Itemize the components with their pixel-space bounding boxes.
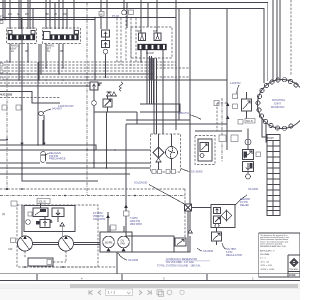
arrow junction x22 y145	[20, 143, 23, 146]
wire drop to reducing valves	[100, 0, 102, 29]
node dot x7 bus	[6, 188, 8, 190]
dashed pilot bundle	[117, 16, 136, 68]
wire drop	[58, 0, 60, 29]
arrow up feed P3	[107, 248, 111, 252]
junction dots pilot bus	[2, 17, 149, 21]
cable bundle dark	[149, 58, 154, 80]
wire dash-dot x7	[6, 60, 8, 189]
zone tick 3	[206, 274, 208, 281]
svg-text:.XXX ± .003: .XXX ± .003	[260, 265, 272, 267]
svg-text:JOINT: JOINT	[274, 101, 282, 105]
svg-text:ANGULAR ± 1°: ANGULAR ± 1°	[260, 250, 275, 253]
cooler port box 15	[152, 170, 156, 174]
SOL 20 box	[37, 199, 50, 204]
leader SS-0005	[118, 253, 127, 260]
viewer refresh icon	[167, 290, 172, 295]
check valve CV3	[156, 158, 161, 162]
filter assembly FA1 box	[211, 205, 235, 228]
pump group enclosure	[17, 205, 98, 267]
wire left bus y174	[0, 173, 130, 175]
valve assembly VA4 below joint	[243, 150, 254, 160]
port box left edge e	[0, 77, 3, 80]
wire mid solid bus 2	[0, 79, 227, 81]
wire drop	[62, 0, 64, 29]
drawing border outer line	[0, 280, 300, 282]
wire y92 corner	[0, 92, 60, 104]
viewer scrollbar thumb	[70, 284, 298, 288]
zone tick 1	[36, 274, 38, 281]
leader 2850 PSI	[190, 115, 201, 120]
svg-text:2A: 2A	[11, 50, 14, 53]
RJ1 rim ports	[256, 78, 298, 131]
solenoid SOL A of V3	[139, 33, 146, 41]
wire vertical x43	[42, 120, 44, 145]
wire V2 tank drop	[45, 44, 47, 69]
svg-text:REGULATOR: REGULATOR	[226, 253, 242, 257]
pager page input	[106, 289, 133, 295]
wire drop	[49, 0, 51, 29]
wire P3 P4 up	[110, 226, 124, 232]
wire dashed L x217	[217, 103, 227, 131]
FA1 relief valve	[214, 208, 221, 214]
svg-text:FAN: FAN	[121, 242, 126, 245]
wire V1 work port A	[18, 44, 20, 81]
wire pilot return bus	[0, 19, 95, 21]
control valve CV-P2	[52, 208, 64, 217]
svg-text:.XXXX ± .0005: .XXXX ± .0005	[260, 269, 275, 271]
wire bundle center	[150, 56, 154, 104]
gauge G2	[103, 49, 107, 53]
component box 15b	[16, 105, 21, 110]
svg-text:1803 RPM: 1803 RPM	[130, 222, 142, 226]
component box 14	[11, 201, 17, 206]
wire drop long right lower	[189, 211, 191, 230]
spool dark CV-P1	[40, 209, 46, 212]
svg-text:RELIEF: RELIEF	[240, 203, 249, 207]
wire drop left group	[2, 0, 4, 18]
label SN-7857 regulator	[226, 247, 242, 257]
valve V1 label	[10, 45, 19, 51]
svg-text:SS-0000: SS-0000	[248, 187, 259, 191]
valve V2 TRAVEL LEFT enclosure	[43, 28, 81, 44]
wire left bus y145	[0, 145, 96, 150]
accumulator label	[49, 151, 66, 161]
leader SS-J0005	[181, 169, 190, 172]
FA1 valve 2	[214, 216, 221, 224]
wire left bus y163	[0, 162, 40, 164]
wire drop long	[175, 0, 177, 130]
wire drop	[54, 3, 56, 30]
component box L2	[99, 12, 104, 17]
component box 18	[11, 238, 16, 243]
aux valve gauge	[200, 154, 204, 158]
svg-text:14U2702: 14U2702	[230, 81, 241, 85]
label 16 GPM pump	[93, 211, 105, 221]
wire V2 work port B	[62, 44, 64, 69]
motor group box	[100, 232, 132, 252]
check valve CV1	[107, 92, 112, 96]
component box 90	[129, 10, 134, 15]
wire mid dashed bus 4	[0, 70, 150, 72]
svg-text:SOLENOID: SOLENOID	[134, 181, 148, 185]
fan motor FM1	[166, 147, 178, 159]
valve V2 spool windows	[53, 35, 77, 39]
wire V3 drop	[162, 50, 164, 134]
component box 16	[47, 260, 52, 265]
svg-text:SOL B: SOL B	[246, 121, 253, 123]
pager dropdown arrow	[127, 292, 131, 294]
viewer toolbar	[0, 288, 300, 300]
filter F1	[153, 147, 164, 158]
svg-text:REFERENCE ASM FILE: UGII: REFERENCE ASM FILE: UGII	[260, 245, 286, 248]
title block logo cell	[288, 255, 300, 277]
valve V2 pilot caps	[44, 31, 79, 40]
leader solenoid	[149, 185, 188, 207]
wire V3 return	[156, 58, 158, 134]
svg-text:1803 RPM: 1803 RPM	[93, 217, 105, 221]
gauge G1 circle	[122, 10, 127, 15]
drawing border inner line	[0, 273, 300, 275]
arrow up x126	[124, 204, 128, 208]
wire mid solid bus 3	[0, 85, 95, 87]
wire cooler feed 2	[126, 119, 190, 121]
node dot gauge riser	[123, 8, 125, 10]
title block note text	[260, 234, 289, 248]
component box 12	[214, 101, 219, 106]
node dot x7 end	[6, 139, 8, 141]
wire V1 tank drop	[9, 44, 11, 63]
valve V1 spool windows	[10, 35, 32, 39]
valve VA4 spool dark	[244, 152, 248, 158]
valve V2 label	[46, 45, 55, 51]
svg-text:2B: 2B	[25, 51, 28, 53]
component box 22	[256, 152, 261, 157]
svg-text:TOTAL SYSTEM VOLUME - 188 GAL: TOTAL SYSTEM VOLUME - 188 GAL	[157, 263, 201, 267]
valve VA4 lower body	[243, 162, 254, 172]
wire drain dashed bus	[33, 266, 117, 268]
solenoid valve SV1	[103, 99, 112, 107]
coil CL1	[120, 82, 123, 91]
wire drop	[126, 3, 128, 29]
pump manifold inner box	[24, 206, 75, 232]
suction valve SV3	[175, 238, 186, 246]
component box 14b	[2, 105, 7, 110]
component box 28	[110, 225, 116, 230]
viewer toolbar top divider	[0, 287, 300, 289]
wire dashed power-unit bus 1	[0, 188, 185, 190]
spool dark CV-P2	[36, 221, 43, 225]
wire motor drop	[116, 252, 118, 274]
wire drop to valve V2	[45, 0, 47, 29]
svg-text:SS-0005: SS-0005	[203, 249, 214, 253]
wire mid dashed bus 3	[0, 67, 190, 69]
wire drop	[73, 0, 75, 34]
junction dots solid buses	[9, 73, 96, 87]
wire bottom manifold	[126, 232, 174, 252]
wire z link	[192, 207, 212, 209]
title block logo diamond	[290, 259, 298, 267]
pump drain box	[28, 258, 53, 266]
svg-text:TRAVEL: TRAVEL	[10, 45, 19, 48]
control valve CV-P1	[33, 208, 48, 217]
SV2 body	[242, 99, 252, 111]
aux valve element	[200, 143, 209, 152]
valve V3 spool windows	[140, 45, 165, 49]
wire pilot dash-dot line	[86, 3, 88, 196]
junction dots grid	[86, 149, 107, 169]
reservoir label underline	[165, 260, 210, 262]
wire top pressure bus P	[0, 3, 268, 82]
aux valve body	[198, 139, 212, 161]
wire left bus y163 contd	[46, 162, 151, 164]
svg-text:MANIFOLD: MANIFOLD	[271, 105, 285, 109]
valve V2 port labels	[45, 13, 68, 16]
wire inter-bank pair	[39, 44, 41, 80]
svg-text:(2): (2)	[2, 212, 5, 216]
label 12096 relief	[240, 197, 250, 207]
wire mid dashed bus 5	[0, 76, 190, 78]
svg-text:TRAVEL: TRAVEL	[46, 45, 55, 48]
RJ1 label	[271, 98, 285, 109]
cooler port box 17	[166, 170, 170, 174]
leader 14U4007	[43, 109, 51, 113]
pump P3	[103, 236, 115, 248]
wire left bus y150	[0, 149, 151, 151]
wire drop to valve V3	[140, 0, 142, 33]
valve V3 spool block	[138, 44, 167, 50]
svg-text:PT-06: PT-06	[112, 14, 119, 18]
wire drop	[29, 0, 31, 29]
wire right risers to rotary joint	[272, 0, 274, 85]
wire drop	[20, 0, 22, 29]
spring RV-P1	[50, 220, 52, 223]
component box z	[185, 204, 192, 211]
wire drop	[147, 3, 149, 28]
wire drop	[178, 9, 180, 121]
cooler port box 16	[158, 170, 162, 174]
component box 44	[124, 211, 130, 216]
svg-text:3A: 3A	[47, 50, 50, 53]
junction dots left buses	[21, 144, 116, 175]
pager next button	[139, 290, 142, 294]
wire dashed power-unit right edge	[184, 189, 186, 242]
wire z down	[174, 211, 188, 252]
regulator valve RG1	[212, 232, 222, 241]
wire pump drains dashed	[25, 251, 66, 262]
wire dashed sheet edge	[290, 0, 292, 76]
wire PRV verticals down	[94, 112, 107, 168]
svg-text:PRECHARGE: PRECHARGE	[49, 157, 66, 161]
svg-text:1 / 1: 1 / 1	[108, 290, 117, 295]
title block CAB text	[289, 268, 298, 277]
svg-text:CW: CW	[8, 247, 13, 251]
SV2 leader	[237, 85, 239, 98]
wire drop	[32, 9, 34, 30]
wire top tank bus T	[0, 9, 264, 84]
cooler port box 18	[172, 170, 176, 174]
valve VA4 spool dark 2	[250, 163, 253, 169]
wire RC1 links	[94, 90, 137, 112]
title block tolerance rows	[260, 250, 275, 272]
valve V1 spool block	[8, 35, 35, 41]
accumulator leader	[45, 154, 48, 157]
viewer fullscreen icon	[157, 290, 164, 297]
wire drop long right	[189, 9, 191, 205]
wire mid solid bus 1	[0, 73, 154, 75]
valve V3 solenoid tags	[137, 31, 158, 33]
node dots dashed bus	[21, 188, 136, 196]
pump P4 text	[121, 241, 126, 246]
port box left edge b	[0, 21, 3, 24]
wire SV2	[246, 92, 248, 119]
pager last-page button	[148, 290, 152, 294]
valve V1 pilot caps	[8, 31, 35, 35]
component box 10	[233, 104, 238, 109]
svg-text:16GPM: 16GPM	[105, 242, 113, 244]
wire mid dashed bus 2	[0, 64, 176, 66]
wire dashed power-unit bus 2	[0, 195, 185, 197]
svg-text:TRW ASM: TRW ASM	[289, 268, 298, 271]
wire VA4 links	[247, 129, 249, 175]
component box SOL B2	[238, 120, 243, 125]
wire drop	[4, 0, 6, 20]
wire drop	[66, 9, 68, 30]
pump P4	[118, 236, 130, 248]
wire drop	[18, 0, 20, 29]
relief cluster RC1 spring	[98, 83, 100, 86]
wire FA1 down	[216, 228, 218, 245]
wire right connector	[126, 123, 227, 125]
check valve CV2	[112, 92, 117, 96]
wire bottom long	[117, 236, 190, 252]
accumulator AC1	[41, 152, 46, 163]
wire V2 work port A	[58, 44, 60, 75]
wire x126 drop	[125, 124, 127, 232]
shaft P2-motor	[74, 243, 101, 245]
gauge G4	[246, 174, 251, 179]
node drain dots	[24, 266, 64, 268]
wire V3 drop	[146, 50, 148, 104]
wire shuttle to drop	[43, 113, 44, 115]
wire vertical x38	[37, 62, 39, 145]
rotary joint port table	[267, 135, 280, 216]
check CV-P3	[60, 222, 64, 226]
valve V1 TRAVEL RIGHT enclosure	[7, 28, 37, 44]
arrow junction x44 y145	[42, 143, 45, 146]
arrow motor feed left	[106, 214, 110, 218]
valve V3 fan loop enclosure	[131, 27, 172, 58]
wire RV stack	[105, 37, 107, 41]
node V1 ports text	[11, 50, 28, 53]
svg-text:DECIMAL: DECIMAL	[260, 253, 271, 256]
wire mid dashed bus 6	[0, 82, 101, 84]
SV2 SOL B box	[245, 119, 255, 124]
svg-text:4UG1-09S: 4UG1-09S	[0, 93, 13, 97]
valve V2 spool block	[50, 35, 79, 41]
pump P1	[18, 236, 33, 251]
wire y140 stub	[0, 139, 7, 141]
svg-text:.XX ± .06: .XX ± .06	[260, 261, 270, 263]
FA1 filter diamond	[222, 210, 232, 221]
check valve CV4	[188, 229, 192, 233]
cooler assembly enclosure	[151, 134, 181, 172]
viewer scrollbar track	[0, 284, 300, 289]
component box L1	[233, 94, 238, 99]
arrow up feed P4	[122, 248, 126, 252]
wire drop right	[226, 9, 228, 151]
gauge GP1	[26, 220, 31, 225]
component box 28b	[231, 135, 238, 142]
arrow on riser	[226, 103, 229, 106]
wire drop to valve V1	[9, 0, 11, 29]
wire riser	[279, 0, 281, 89]
svg-text:3B: 3B	[60, 51, 63, 53]
svg-text:ROTATING: ROTATING	[272, 98, 285, 102]
relief cluster RC1 valve	[90, 82, 98, 90]
wire cooler internal	[159, 134, 172, 170]
reservoir label	[157, 257, 201, 267]
wire drop	[106, 0, 108, 29]
wire cooler feed corner	[140, 104, 180, 112]
wire drop to gauge	[123, 0, 125, 10]
pager first-page button	[89, 290, 93, 294]
junction dots on buses	[9, 61, 142, 84]
wire pilot bus	[0, 17, 176, 19]
svg-text:RIGHT: RIGHT	[10, 48, 18, 50]
zone tick 2	[121, 274, 123, 281]
svg-text:X ± .1: X ± .1	[260, 258, 266, 260]
port box left edge a	[0, 16, 3, 19]
gauge G5	[245, 139, 251, 145]
svg-text:SS-0005: SS-0005	[128, 258, 139, 262]
wire V3 to cooler pair	[153, 58, 155, 134]
solenoid SOL B of V3	[154, 33, 161, 41]
node V2 ports text	[47, 50, 63, 53]
valve V1 port labels	[8, 13, 30, 16]
reducing valve RV2 body	[102, 41, 110, 48]
arrow on riser 2	[226, 116, 229, 119]
reducing valve RV1 body	[102, 30, 110, 37]
wire V3 drop left	[140, 50, 142, 62]
shaft P1-P2	[33, 243, 59, 245]
wire y97 dashed	[0, 97, 60, 99]
wire drop	[94, 18, 96, 81]
wire dash-dot x222	[221, 98, 223, 162]
wire drop	[27, 0, 29, 29]
wire y131	[195, 130, 242, 132]
aux valve assembly enclosure	[195, 136, 215, 165]
svg-text:LEFT: LEFT	[46, 48, 52, 50]
svg-text:14U4007: 14U4007	[52, 107, 63, 111]
wire RV down	[105, 54, 107, 78]
svg-text:PORT: PORT	[268, 138, 275, 140]
rotating joint manifold RJ1	[258, 80, 307, 129]
FA1 gauge	[215, 224, 219, 228]
leader SS-0000	[235, 195, 247, 205]
wire x41 down	[43, 115, 45, 145]
gauge G3	[92, 101, 97, 106]
wire riser	[276, 0, 278, 87]
leader SS-0005 right	[198, 248, 203, 251]
svg-text:SS-J0005: SS-J0005	[191, 170, 203, 174]
port box left edge d	[0, 70, 3, 73]
wire left bus y168	[0, 167, 150, 169]
leader regulator	[222, 243, 226, 249]
component box 27	[219, 135, 226, 142]
port box left edge c	[0, 63, 3, 66]
title block frame	[259, 233, 300, 277]
wire RJ1 bottom drops	[262, 118, 267, 142]
